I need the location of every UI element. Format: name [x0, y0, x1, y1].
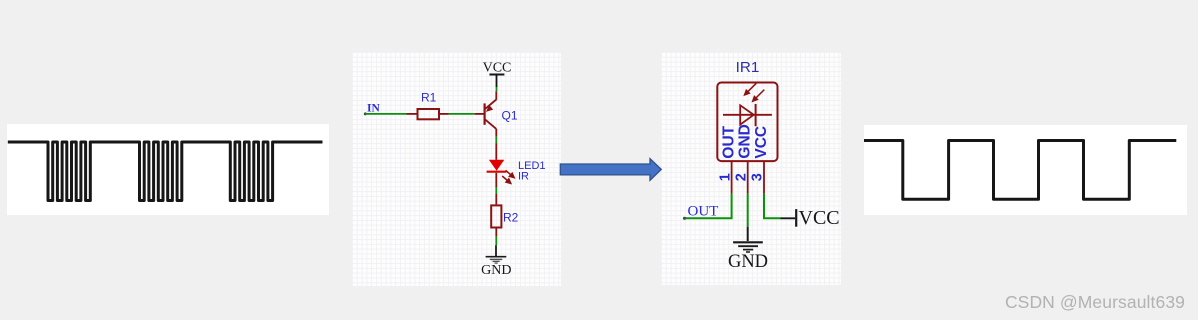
LED1 emission arrows [502, 170, 514, 183]
wire: VCC to Q1 emitter [495, 87, 497, 100]
arrow: block arrow between panels [560, 159, 661, 181]
IR1 receiver diode symbol [723, 104, 772, 126]
wire: Q1 collector to LED1 [495, 129, 497, 160]
svg-text:1: 1 [717, 173, 733, 181]
svg-text:VCC: VCC [483, 61, 512, 76]
node: OUT pin dot [683, 217, 686, 220]
svg-text:Q1: Q1 [502, 109, 518, 123]
svg-text:IR1: IR1 [736, 59, 760, 76]
svg-text:2: 2 [734, 173, 750, 181]
ground symbol (middle) [486, 257, 507, 263]
left waveform panel [7, 124, 329, 215]
IR1 pin names (rotated) [720, 124, 770, 158]
wire: LED1 to R2 [495, 173, 497, 205]
resistor R2 [491, 205, 501, 227]
watermark [1005, 292, 1185, 313]
svg-text:VCC: VCC [753, 126, 770, 159]
svg-text:IN: IN [367, 103, 380, 115]
IR1 pin stubs [732, 162, 764, 194]
svg-text:VCC: VCC [799, 207, 840, 229]
power port VCC (middle schematic) [483, 61, 512, 88]
power port VCC (right) [796, 207, 839, 229]
svg-text:OUT: OUT [720, 125, 737, 158]
IR1 incoming light arrows [745, 83, 765, 101]
wire: R1 to Q1 base [449, 113, 484, 115]
svg-text:GND: GND [481, 263, 511, 278]
wire: pin2 to ground [747, 194, 749, 241]
svg-text:OUT: OUT [688, 204, 719, 220]
ground symbol (right) [733, 242, 763, 252]
svg-text:R1: R1 [421, 91, 437, 105]
IR1 body box [717, 83, 777, 162]
middle schematic panel (grid) [352, 52, 561, 286]
wire: pin1 to OUT [685, 194, 732, 219]
svg-text:GND: GND [728, 252, 768, 272]
right waveform panel [864, 125, 1187, 215]
waveform: demodulated output signal (right) [864, 141, 1176, 200]
LED1 diode symbol [487, 160, 507, 172]
wire: IN to R1 [365, 113, 406, 115]
svg-text:GND: GND [737, 124, 754, 158]
right schematic panel (grid) [661, 52, 841, 285]
wire: pin3 to VCC [764, 194, 795, 219]
node: IN pin dot [364, 112, 367, 115]
pin numbers 1 2 3 (rotated) [717, 173, 765, 181]
svg-text:R2: R2 [503, 211, 519, 225]
wire: R2 to GND [495, 229, 497, 257]
resistor R1 [407, 109, 449, 119]
transistor Q1 (PNP) [485, 100, 497, 129]
Q1 emitter arrow [486, 105, 493, 112]
waveform: modulated input signal (left) [8, 142, 323, 201]
svg-text:IR: IR [518, 171, 529, 183]
svg-text:3: 3 [749, 173, 765, 181]
